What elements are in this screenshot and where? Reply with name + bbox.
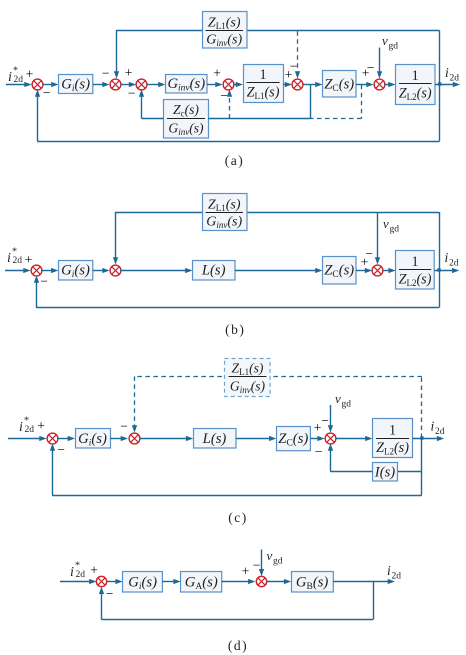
wire S2b to L(s) [120,268,192,273]
wire top feedback horizontal (b) [115,212,439,214]
svg-text:1: 1 [412,68,419,84]
block 1/ZL2(s) (c) [373,419,413,458]
wire S2d to GB [266,579,291,584]
svg-text:i: i [70,565,74,580]
wire S3a to Ginv [147,82,166,87]
svg-text:gd: gd [342,400,352,410]
wire ZC to summing junction S3c [310,436,324,441]
svg-text:2d: 2d [449,259,459,269]
summing junction S4a [223,79,234,90]
svg-text:1: 1 [411,254,418,270]
wire ZC to summing junction S6a [356,82,374,87]
wire tap down from S5a output [310,84,312,119]
wire S1c to Gi [57,436,75,441]
svg-text:−: − [120,419,128,434]
block Ginv(s) (a) [166,75,208,94]
wire output node vertical (b) [439,212,441,308]
block I(s) (c) [373,463,398,482]
block Gi(s) (b) [59,261,93,281]
block dashed ZL1(s)/Ginv(s) (c) [225,359,271,397]
block 1/ZL1(s) (a) [244,65,284,103]
wire Ginv to summing junction S4a [207,82,223,87]
wire vgd down into S2d [259,550,264,577]
block 1/ZL2(s) (a) [396,65,436,105]
wire output of 1/ZL2 with arrow (a) [435,82,460,87]
block Zc(s)/Ginv(s) lower (a) [164,100,209,139]
summing junction S3b [372,265,383,276]
block ZC(s) (b) [323,257,357,285]
svg-text:L(s): L(s) [201,263,226,279]
wire S2a to summing junction S3a [120,82,136,87]
wire S3c to 1/ZL2 [335,436,372,441]
svg-text:(b): (b) [225,322,245,337]
block Gi(s) (d) [123,572,163,593]
wire input to summing junction S1a [6,82,32,87]
wire dashed alternative rise into S4a [227,89,232,118]
wire Gi to summing junction S2c [110,436,128,441]
wire dashed alternative tap after ZC (a) [310,85,362,119]
wire output node down to bottom feedback (c) [421,438,423,495]
wire dashed drop from dashed feedback into S2c [132,376,137,432]
wire input to summing junction S1c [8,436,47,441]
svg-text:−: − [102,66,110,81]
svg-text:+: + [125,65,133,80]
svg-text:2d: 2d [435,427,445,437]
svg-text:Zc(s): Zc(s) [173,102,199,119]
node output label i2d (d) [387,563,401,582]
svg-text:−: − [106,586,114,601]
svg-text:1: 1 [389,423,396,439]
svg-text:−: − [43,85,51,100]
svg-text:v: v [383,216,389,231]
svg-text:−: − [220,88,228,103]
wire 1/ZL1 to summing junction S5a [283,82,292,87]
summing junction S6a [374,79,385,90]
svg-text:Gi(s): Gi(s) [128,575,157,593]
summing junction S2a [110,79,121,90]
wire Gi to summing junction S2b [93,268,110,273]
svg-text:ZC(s): ZC(s) [324,77,354,95]
svg-text:1: 1 [259,67,266,83]
block ZL1(s)/Ginv(s) top (b) [203,194,248,231]
svg-text:gd: gd [390,225,400,235]
wire bottom feedback (c) [50,443,422,495]
block GA(s) (d) [181,572,222,593]
wire top feedback horizontal (a) [116,30,440,32]
wire output of GB with arrow (d) [333,579,395,584]
wire bottom feedback (d) [99,582,374,620]
wire S1b to Gi [41,268,58,273]
node input label i*2d (a) [8,66,23,86]
summing junction S3a [136,79,147,90]
svg-text:GA(s): GA(s) [185,575,218,593]
block Gi(s) (a) [59,75,93,95]
summing junction S5a [292,79,303,90]
svg-text:ZC(s): ZC(s) [324,263,354,281]
node output label i2d (c) [431,419,445,438]
svg-text:i: i [8,70,12,85]
svg-text:I(s): I(s) [374,465,395,481]
node vgd label (b) [383,216,399,235]
wire input to summing junction S1d [60,579,97,584]
wire vgd down into S3b [375,212,380,265]
summing junction S1c [47,433,58,444]
wire S4a to 1/ZL1 [233,82,243,87]
svg-text:(c): (c) [228,510,247,525]
node vgd label (c) [335,391,351,410]
svg-text:i: i [445,250,449,265]
node output label i2d (a) [445,65,459,84]
summing junction S1a [32,79,43,90]
svg-text:−: − [40,274,48,289]
wire S6a to 1/ZL2 [384,82,395,87]
svg-text:2d: 2d [14,75,24,85]
wire Zc/Ginv output to S3a [139,89,164,118]
wire dashed rise from output node (c) [421,376,423,438]
summing junction S3c [325,433,336,444]
wire top feedback drop into S2a [114,31,119,79]
wire GA to summing junction S2d [222,579,256,584]
wire input to summing junction S1b [5,268,31,273]
svg-text:L(s): L(s) [202,431,227,447]
wire L to ZC (c) [236,436,277,441]
junction dot at output node (c) [420,436,423,439]
svg-text:2d: 2d [13,256,23,266]
summing junction S2d [256,576,266,586]
svg-text:+: + [37,418,45,433]
svg-text:−: − [365,246,373,261]
wire dashed drop from top feedback into S5a [295,31,300,78]
svg-text:+: + [25,252,33,267]
node vgd label (a) [382,33,398,52]
wire output of 1/ZL2 with arrow (b) [434,268,459,273]
wire dashed feedback horizontal (c) [134,376,422,378]
summing junction S1d [96,576,106,586]
svg-text:Gi(s): Gi(s) [61,77,90,95]
block 1/ZL2(s) (b) [396,251,435,290]
block ZC(s) (c) [277,427,311,451]
wire bottom feedback (b) [34,275,439,307]
block ZC(s) (a) [323,71,357,98]
wire L to ZC (b) [235,268,323,273]
svg-text:i: i [445,65,449,80]
svg-text:−: − [253,558,261,573]
svg-text:−: − [290,59,298,74]
svg-text:+: + [314,420,322,435]
wire output node vertical from top feedback to bottom feedback (a) [439,31,441,142]
wire I(s) output to S3c bottom [328,443,373,471]
wire S1d to Gi [107,579,123,584]
svg-text:2d: 2d [392,572,402,582]
wire Gi to summing junction S2a [93,82,110,87]
svg-text:−: − [128,86,136,101]
wire Gi to GA (d) [163,579,181,584]
svg-text:i: i [387,563,391,578]
junction dot at output node (b) [437,268,440,271]
node output label i2d (b) [445,250,459,269]
wire vgd down into S6a [377,48,382,79]
summing junction S2c [129,433,140,444]
block Gi(s) (c) [76,429,111,449]
svg-text:+: + [242,564,250,579]
svg-text:GB(s): GB(s) [296,575,329,593]
wire S2c to L(s) [139,436,193,441]
svg-text:v: v [382,33,388,48]
svg-text:−: − [321,413,329,428]
wire ZC to summing junction S3b [356,268,372,273]
node vgd label (d) [267,548,283,567]
svg-text:+: + [26,67,34,82]
svg-text:−: − [315,444,323,459]
block L(s) (c) [194,429,237,449]
wire S3b to 1/ZL2 [383,268,396,273]
svg-text:Gi(s): Gi(s) [78,431,107,449]
svg-text:2d: 2d [450,74,460,84]
wire from output vertical into I(s) [398,471,422,473]
svg-text:i: i [431,419,435,434]
wire top feedback drop into S2b [113,212,118,265]
wire output of 1/ZL2 with arrow (c) [413,436,445,441]
svg-text:(a): (a) [225,153,244,168]
svg-text:+: + [90,563,98,578]
wire bottom feedback (a) [35,89,440,141]
summing junction S2b [110,265,121,276]
wire vgd down into S3c [328,405,333,433]
svg-text:i: i [7,251,11,266]
svg-text:−: − [367,60,375,75]
svg-text:+: + [213,66,221,81]
node input label i*2d (d) [70,561,85,581]
svg-text:gd: gd [389,42,399,52]
svg-text:2d: 2d [25,425,35,435]
wire from tap into Zc/Ginv input (a) [209,118,311,120]
svg-text:(d): (d) [228,638,248,653]
node input label i*2d (b) [7,247,22,267]
svg-text:−: − [57,442,65,457]
node input label i*2d (c) [19,416,34,436]
svg-text:2d: 2d [76,570,86,580]
block GB(s) (d) [292,572,334,593]
svg-text:v: v [335,391,341,406]
svg-text:Gi(s): Gi(s) [61,263,90,281]
summing junction S1b [31,265,42,276]
wire S5a to ZC with tap node [303,82,323,87]
junction dot at output node (a) [438,82,441,85]
svg-text:gd: gd [273,557,283,567]
block L(s) (b) [193,261,236,281]
svg-text:i: i [19,420,23,435]
svg-text:v: v [267,548,273,563]
wire S1a to Gi [42,82,58,87]
svg-text:ZC(s): ZC(s) [278,431,308,449]
block ZL1(s)/Ginv(s) top (a) [203,12,248,49]
